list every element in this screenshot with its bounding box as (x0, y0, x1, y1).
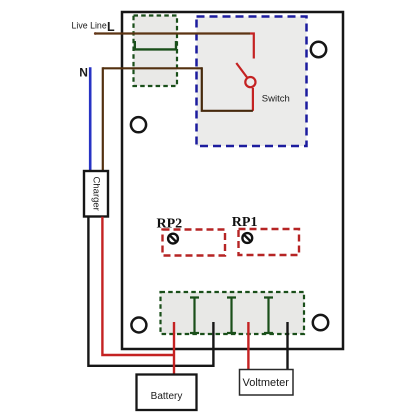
live line start dot (94, 32, 97, 35)
mounting hole bottom-left (131, 318, 146, 333)
PCB board outline (122, 12, 343, 349)
svg-text:Live Line: Live Line (72, 21, 107, 31)
wire live L horizontal (96, 32, 250, 34)
RP2 adjust screw (168, 234, 178, 244)
switch S1 pivot circle (245, 77, 255, 87)
wire N horizontal (103, 67, 202, 69)
potentiometer RP2 dashed box (163, 230, 226, 256)
wire red charger bus (102, 217, 174, 355)
mounting hole bottom-right (313, 315, 328, 330)
TB2 divider post 1 (190, 298, 199, 334)
wire red TB2 cell1 to battery (173, 322, 175, 375)
terminal block TB1 (top, green dashed) (134, 16, 178, 87)
terminal block TB2 (bottom, green dashed) (161, 292, 305, 334)
wire N step into switch box (202, 67, 253, 111)
svg-text:N: N (79, 66, 88, 80)
svg-text:Voltmeter: Voltmeter (243, 377, 290, 389)
svg-text:Charger: Charger (90, 177, 101, 211)
TB2 divider post 2 (227, 298, 236, 334)
switch enclosure (blue dashed) (197, 17, 307, 147)
potentiometer RP1 dashed box (239, 229, 300, 255)
mounting hole top-right (311, 42, 326, 57)
wire switch output stem (red) (252, 88, 254, 111)
svg-text:Switch: Switch (262, 93, 290, 104)
wire brown drop to charger (102, 67, 104, 171)
fuse link bracket inside TB1 (135, 41, 176, 49)
svg-text:L: L (107, 20, 115, 34)
TB2 divider post 3 (264, 298, 273, 334)
wire blue N drop to charger (89, 67, 92, 171)
svg-text:RP2: RP2 (157, 216, 183, 231)
svg-text:Battery: Battery (151, 391, 183, 402)
svg-text:RP1: RP1 (232, 215, 258, 230)
wire black charger to TB2 cell2 (ground bus) (88, 217, 213, 366)
wire switch feed (red, down to fixed contact) (250, 34, 254, 59)
charger U1 box (84, 171, 108, 217)
voltmeter M1 box (240, 370, 294, 396)
wire red TB2 cell3 to voltmeter (247, 322, 249, 370)
wire black TB2 cell4 to voltmeter (286, 322, 288, 370)
RP1 adjust screw (242, 233, 252, 243)
battery BT1 box (137, 375, 197, 411)
switch S1 lever (236, 63, 247, 78)
mounting hole mid-left (131, 117, 146, 132)
